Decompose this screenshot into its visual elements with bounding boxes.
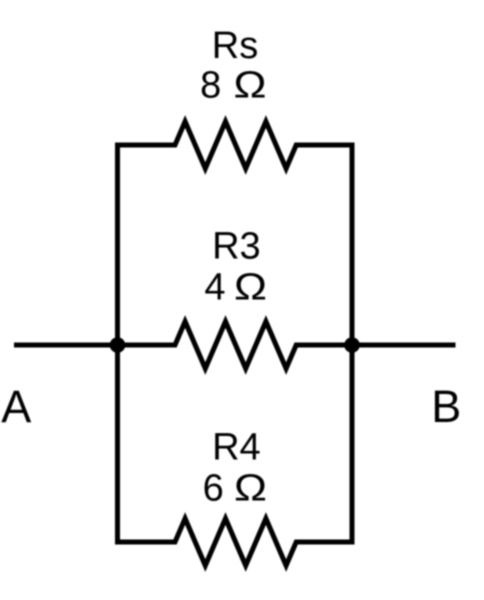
svg-text:Ω: Ω [234, 267, 267, 309]
svg-text:B: B [431, 381, 461, 432]
junction node dot left [110, 337, 126, 353]
svg-text:6: 6 [203, 468, 224, 510]
svg-text:8: 8 [200, 65, 221, 107]
svg-text:4: 4 [204, 267, 225, 309]
wire right vertical rail [350, 143, 355, 545]
svg-text:A: A [1, 381, 31, 432]
wire lead from terminal A to left node [14, 343, 118, 348]
svg-text:R4: R4 [212, 427, 261, 469]
resistor Rs [115, 122, 355, 169]
wire lead from right node to terminal B [352, 343, 456, 348]
svg-text:R3: R3 [212, 226, 261, 268]
resistor R4 [115, 519, 355, 566]
svg-text:Rs: Rs [212, 25, 258, 67]
svg-text:Ω: Ω [234, 468, 267, 510]
wire left vertical rail [115, 143, 120, 545]
svg-text:Ω: Ω [234, 65, 267, 107]
junction node dot right [344, 337, 360, 353]
resistor R3 [115, 322, 355, 369]
